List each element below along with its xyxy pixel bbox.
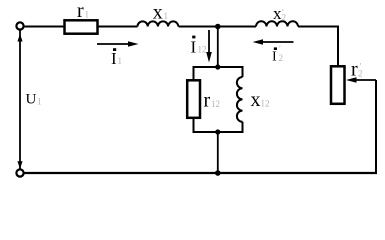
svg-text:′: ′ <box>279 44 281 54</box>
wiper arrow into r2 <box>346 77 376 83</box>
label x1 <box>153 2 168 24</box>
wire loop to bottom rail <box>217 132 219 173</box>
svg-text:12: 12 <box>211 99 220 109</box>
svg-text:x: x <box>251 89 261 111</box>
bottom rail <box>24 172 377 174</box>
svg-text:I: I <box>272 50 277 65</box>
resistor R2 (rheostat body) <box>331 66 345 104</box>
wire wiper to bottom rail <box>375 80 377 173</box>
magnetizing loop top wire <box>194 67 243 80</box>
wire x2 to corner and down to r2 <box>298 27 338 67</box>
node A junction dot <box>215 24 221 30</box>
svg-text:12: 12 <box>261 99 270 109</box>
wire x1 to node A <box>179 26 257 28</box>
node D on bottom rail <box>215 170 221 176</box>
inductor x2 <box>256 21 298 26</box>
svg-text:x: x <box>153 2 163 24</box>
svg-text:1: 1 <box>118 56 123 66</box>
resistor R1 <box>65 20 98 33</box>
label r2 <box>351 59 363 81</box>
node C bottom of loop <box>215 129 220 134</box>
node B top of magnetizing loop <box>215 64 220 69</box>
svg-text:′: ′ <box>360 62 362 72</box>
terminal bottom-left <box>16 169 23 176</box>
label r12 <box>204 90 221 112</box>
svg-text:1: 1 <box>164 11 169 21</box>
label U1 <box>26 92 42 108</box>
svg-text:I: I <box>191 37 197 56</box>
current arrow I12 <box>206 30 212 63</box>
svg-text:U: U <box>26 92 37 108</box>
svg-text:1: 1 <box>85 10 90 20</box>
svg-text:2: 2 <box>279 53 284 63</box>
wire node A down to magnetizing branch <box>217 27 219 68</box>
label x2 <box>273 4 286 23</box>
wire top-left <box>24 26 64 28</box>
svg-text:r: r <box>77 0 84 22</box>
label I1 <box>111 48 122 68</box>
svg-text:r: r <box>204 90 211 112</box>
label r1 <box>77 0 89 22</box>
voltage arrow U1 <box>17 31 22 169</box>
current arrow I2 <box>253 39 294 45</box>
svg-text:I: I <box>111 49 117 68</box>
svg-text:′: ′ <box>282 8 284 18</box>
resistor R12 <box>187 80 200 118</box>
label I12 <box>191 36 207 57</box>
wire r1 to x1 <box>98 26 138 28</box>
terminal top-left <box>16 22 23 29</box>
svg-text:r: r <box>351 59 358 81</box>
label I2 <box>272 44 283 65</box>
label x12 <box>251 89 270 111</box>
svg-text:1: 1 <box>37 97 42 107</box>
svg-text:12: 12 <box>198 45 207 55</box>
magnetizing loop bottom wire <box>194 118 243 132</box>
current arrow I1 <box>97 41 139 47</box>
inductor x12 <box>237 77 243 122</box>
inductor x1 <box>138 21 179 26</box>
